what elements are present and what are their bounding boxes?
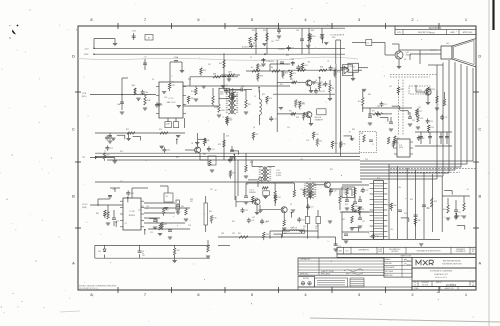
svg-text:P3/J3: P3/J3 — [417, 90, 421, 92]
svg-text:100: 100 — [426, 208, 429, 210]
svg-text:10: 10 — [146, 208, 148, 210]
svg-text:C27: C27 — [365, 190, 368, 192]
svg-text:C38: C38 — [360, 191, 363, 193]
svg-text:SEL FOR: SEL FOR — [315, 117, 322, 119]
svg-text:C6: C6 — [142, 251, 144, 253]
svg-text:R22: R22 — [218, 144, 221, 146]
svg-text:+15: +15 — [466, 189, 469, 191]
svg-text:C23: C23 — [146, 206, 149, 208]
svg-text:R64: R64 — [334, 143, 337, 145]
svg-text:R53: R53 — [305, 65, 308, 67]
svg-text:LS1: LS1 — [446, 43, 449, 45]
svg-text:25V: 25V — [142, 255, 145, 257]
svg-text:D: D — [478, 54, 481, 59]
svg-text:CODE: CODE — [378, 249, 382, 251]
svg-text:L1: L1 — [254, 96, 256, 98]
svg-text:47: 47 — [315, 228, 317, 230]
svg-text:T1: T1 — [222, 117, 224, 119]
svg-text:.01: .01 — [176, 211, 178, 213]
svg-text:R19: R19 — [316, 134, 319, 136]
svg-text:D: D — [72, 54, 75, 59]
svg-text:R47: R47 — [166, 210, 169, 212]
svg-text:R33: R33 — [352, 129, 355, 131]
svg-text:R46: R46 — [393, 205, 396, 207]
svg-text:R33: R33 — [431, 127, 434, 129]
svg-text:R13: R13 — [159, 129, 162, 131]
svg-text:R13: R13 — [255, 198, 258, 200]
svg-text:R44: R44 — [181, 206, 184, 208]
svg-text:R31: R31 — [248, 104, 251, 106]
svg-text:C11: C11 — [274, 119, 277, 121]
svg-text:R11: R11 — [293, 73, 296, 75]
svg-text:E (WH): E (WH) — [276, 175, 281, 177]
svg-text:Q10: Q10 — [406, 52, 409, 54]
svg-text:78M15: 78M15 — [349, 66, 354, 68]
svg-text:R61: R61 — [238, 233, 241, 235]
svg-text:R37: R37 — [330, 169, 333, 171]
svg-text:R63: R63 — [312, 36, 315, 38]
svg-text:C52: C52 — [302, 219, 305, 221]
svg-text:R43: R43 — [190, 199, 193, 201]
svg-text:Q11: Q11 — [433, 89, 436, 91]
svg-text:R50: R50 — [400, 89, 403, 91]
svg-text:C: C — [72, 127, 75, 132]
svg-text:L 1/2 S: L 1/2 S — [249, 190, 254, 192]
svg-text:R43: R43 — [312, 193, 315, 195]
svg-text:R20: R20 — [203, 154, 206, 156]
svg-text:C24: C24 — [211, 149, 214, 151]
svg-text:MIL SPEC: MIL SPEC — [391, 251, 399, 253]
svg-text:J2 IN: J2 IN — [82, 93, 87, 95]
svg-text:DESCRIPTION: DESCRIPTION — [418, 32, 431, 34]
svg-text:C25: C25 — [150, 232, 153, 234]
svg-text:R62 2.2K: R62 2.2K — [290, 228, 298, 230]
svg-text:R55: R55 — [410, 199, 413, 201]
svg-text:R50: R50 — [355, 206, 358, 208]
svg-text:SYM: SYM — [397, 32, 401, 34]
svg-text:R16: R16 — [235, 96, 238, 98]
svg-text:QTY: QTY — [346, 251, 349, 253]
svg-text:FLANGER CKT: FLANGER CKT — [434, 273, 449, 276]
svg-text:NOTES: UNLESS OTHERWISE SPECIF: NOTES: UNLESS OTHERWISE SPECIFIED — [79, 286, 117, 288]
svg-text:C41: C41 — [362, 221, 365, 223]
svg-text:R52: R52 — [342, 219, 345, 221]
svg-text:C44: C44 — [167, 150, 170, 152]
svg-text:IDENT: IDENT — [378, 251, 382, 253]
svg-text:+C3B: +C3B — [290, 59, 294, 61]
svg-text:C45: C45 — [251, 220, 254, 222]
svg-text:C27: C27 — [210, 189, 213, 191]
svg-text:C: C — [478, 127, 481, 132]
svg-text:+15: +15 — [112, 189, 115, 191]
svg-text:4. WDG: 4. WDG — [276, 173, 282, 175]
svg-text:C48: C48 — [131, 193, 134, 195]
svg-text:R12: R12 — [126, 129, 129, 131]
svg-text:R19: R19 — [177, 250, 180, 252]
svg-text:REVISIONS: REVISIONS — [429, 28, 442, 30]
svg-text:C21: C21 — [120, 181, 123, 183]
svg-text:C50: C50 — [390, 229, 393, 231]
svg-text:A: A — [478, 261, 481, 266]
svg-text:+15: +15 — [367, 43, 370, 45]
svg-text:A1: A1 — [148, 36, 150, 39]
svg-text:R70: R70 — [358, 101, 361, 103]
svg-text:CR1: CR1 — [98, 251, 101, 253]
svg-text:C34: C34 — [296, 30, 299, 32]
svg-text:R62: R62 — [290, 79, 293, 81]
svg-text:C22: C22 — [245, 210, 248, 212]
svg-text:WINDING: WINDING — [249, 192, 256, 194]
svg-text:CHECKED: CHECKED — [385, 263, 392, 265]
svg-text:R17: R17 — [176, 157, 179, 159]
svg-text:R32: R32 — [302, 103, 305, 105]
svg-text:M-Series (117): M-Series (117) — [435, 277, 447, 279]
svg-text:R22: R22 — [260, 66, 263, 68]
svg-text:C31: C31 — [315, 226, 318, 228]
svg-text:R47: R47 — [232, 221, 235, 223]
svg-text:R67: R67 — [430, 89, 433, 91]
svg-text:R73: R73 — [421, 118, 424, 120]
svg-text:Q3: Q3 — [318, 77, 320, 79]
svg-text:C40: C40 — [318, 91, 321, 93]
svg-text:+15V: +15V — [84, 48, 89, 50]
svg-text:C39: C39 — [233, 160, 236, 162]
svg-text:R51: R51 — [229, 118, 232, 120]
svg-text:R31: R31 — [172, 85, 175, 87]
svg-text:R50: R50 — [209, 211, 212, 213]
svg-text:C57: C57 — [311, 206, 314, 208]
svg-text:J3 LFO: J3 LFO — [82, 204, 88, 206]
svg-text:R10: R10 — [188, 79, 191, 81]
svg-text:R10: R10 — [269, 98, 272, 100]
svg-text:C26: C26 — [430, 121, 433, 123]
svg-text:C13: C13 — [110, 148, 113, 150]
svg-text:R57: R57 — [107, 212, 110, 214]
svg-text:R48: R48 — [266, 221, 269, 223]
svg-text:R51: R51 — [252, 39, 255, 41]
svg-text:C47: C47 — [458, 212, 461, 214]
svg-text:C 3300/16V: C 3300/16V — [266, 61, 274, 63]
svg-text:R14: R14 — [319, 141, 322, 143]
svg-text:C29: C29 — [252, 217, 255, 219]
svg-text:R63: R63 — [289, 110, 292, 112]
svg-text:R26: R26 — [296, 117, 299, 119]
svg-text:C40: C40 — [398, 187, 401, 189]
svg-text:PWR: PWR — [84, 54, 89, 56]
svg-text:C26: C26 — [188, 225, 191, 227]
svg-text:4013: 4013 — [399, 147, 403, 149]
svg-text:R52: R52 — [164, 224, 167, 226]
svg-text:4558: 4558 — [220, 93, 224, 95]
svg-text:SPKR: SPKR — [430, 33, 435, 35]
svg-text:R65: R65 — [263, 30, 266, 32]
svg-text:C28: C28 — [300, 189, 303, 191]
svg-text:R58: R58 — [434, 201, 437, 203]
svg-text:C23: C23 — [291, 48, 294, 50]
svg-text:APPROVED: APPROVED — [463, 31, 473, 34]
svg-text:CR6: CR6 — [221, 233, 224, 235]
svg-text:+15V: +15V — [131, 31, 136, 33]
svg-text:.01: .01 — [327, 60, 329, 62]
svg-text:R37: R37 — [419, 111, 422, 113]
svg-text:R14: R14 — [278, 197, 281, 199]
svg-text:SYMMETRY: SYMMETRY — [315, 119, 323, 121]
svg-text:T2: T2 — [309, 179, 311, 181]
svg-text:Q4: Q4 — [253, 127, 255, 129]
svg-text:+15: +15 — [143, 57, 146, 59]
svg-text:R36: R36 — [207, 140, 210, 142]
svg-text:REFERENCE: REFERENCE — [456, 249, 465, 251]
svg-text:R28: R28 — [250, 162, 253, 164]
svg-text:R23: R23 — [286, 55, 289, 57]
svg-text:C15: C15 — [333, 190, 336, 192]
svg-text:C38: C38 — [376, 236, 379, 238]
svg-text:.0047: .0047 — [275, 40, 279, 42]
svg-text:L2A1: L2A1 — [131, 84, 135, 87]
svg-text:SHEET 1 OF 1: SHEET 1 OF 1 — [445, 288, 454, 290]
svg-text:100: 100 — [171, 81, 174, 83]
svg-text:ROCHESTER, NEW YORK: ROCHESTER, NEW YORK — [442, 264, 462, 266]
svg-text:R10: R10 — [214, 217, 217, 219]
svg-text:R5: R5 — [251, 67, 253, 69]
svg-text:C15: C15 — [287, 127, 290, 129]
svg-text:R23: R23 — [203, 70, 206, 72]
svg-text:Q6: Q6 — [262, 187, 264, 189]
svg-text:R68: R68 — [260, 75, 263, 77]
svg-text:SAD 512 D: SAD 512 D — [167, 101, 177, 104]
svg-text:C19: C19 — [229, 91, 232, 93]
svg-text:R28: R28 — [306, 191, 309, 193]
svg-text:C48: C48 — [145, 92, 148, 94]
svg-text:R19: R19 — [106, 155, 109, 157]
svg-text:R60: R60 — [343, 144, 346, 146]
svg-text:B: B — [478, 194, 481, 199]
svg-text:C13: C13 — [160, 147, 163, 149]
svg-text:PROJ ENGR: PROJ ENGR — [385, 271, 393, 273]
svg-text:R15: R15 — [120, 151, 123, 153]
svg-text:R34: R34 — [266, 234, 269, 236]
svg-text:C45: C45 — [328, 84, 331, 86]
svg-text:(BLU): (BLU) — [82, 96, 87, 98]
svg-text:R24: R24 — [262, 94, 265, 96]
svg-text:R34: R34 — [368, 94, 371, 96]
svg-text:C17: C17 — [384, 104, 387, 106]
svg-text:10: 10 — [142, 253, 144, 255]
svg-text:C11: C11 — [445, 117, 448, 119]
svg-text:R59: R59 — [443, 209, 446, 211]
svg-text:R30: R30 — [361, 209, 364, 211]
svg-text:R8: R8 — [332, 88, 334, 90]
svg-text:C30: C30 — [303, 226, 306, 228]
svg-text:R7: R7 — [300, 67, 302, 69]
svg-text:MN3101: MN3101 — [129, 215, 135, 217]
svg-text:A: A — [72, 261, 75, 266]
svg-text:R6: R6 — [271, 67, 273, 69]
svg-text:R40: R40 — [306, 114, 309, 116]
svg-text:C15: C15 — [459, 216, 462, 218]
svg-text:R38: R38 — [417, 220, 420, 222]
svg-text:+15 VDC: +15 VDC — [278, 49, 285, 51]
svg-text:C12: C12 — [230, 104, 233, 106]
svg-text:R66: R66 — [311, 30, 314, 32]
svg-text:C8: C8 — [152, 79, 154, 81]
svg-text:R35: R35 — [340, 144, 343, 146]
svg-text:REF DES: REF DES — [303, 278, 309, 280]
svg-text:C22: C22 — [380, 114, 383, 116]
svg-text:47: 47 — [303, 228, 305, 230]
svg-text:IC9: IC9 — [166, 196, 169, 198]
svg-text:R39: R39 — [96, 213, 99, 215]
svg-text:(GRN): (GRN) — [82, 207, 87, 209]
svg-text:C52: C52 — [412, 120, 415, 122]
svg-text:R25: R25 — [280, 84, 283, 86]
svg-text:C35: C35 — [418, 107, 421, 109]
svg-text:C34: C34 — [254, 45, 257, 47]
svg-text:R58: R58 — [190, 98, 193, 100]
svg-text:.01: .01 — [124, 223, 126, 225]
svg-text:R37: R37 — [255, 134, 258, 136]
svg-text:DWG NO.: DWG NO. — [436, 282, 442, 284]
svg-text:TP1: TP1 — [82, 157, 85, 159]
svg-text:R64: R64 — [252, 30, 255, 32]
svg-text:CODE IDENT: CODE IDENT — [421, 282, 429, 284]
svg-text:SCHEMATIC DIAGRAM: SCHEMATIC DIAGRAM — [430, 269, 453, 272]
svg-text:R54: R54 — [345, 204, 348, 206]
svg-text:L 7/8: L 7/8 — [276, 170, 280, 172]
svg-text:C16: C16 — [300, 159, 303, 161]
svg-text:CR7: CR7 — [232, 233, 235, 235]
svg-text:IC 7B: IC 7B — [130, 211, 135, 213]
svg-text:B: B — [72, 194, 75, 199]
svg-text:R72: R72 — [372, 111, 375, 113]
svg-text:C9: C9 — [250, 57, 252, 59]
svg-text:C11: C11 — [225, 85, 228, 87]
svg-text:R15: R15 — [337, 72, 340, 74]
svg-text:R6B: R6B — [320, 67, 323, 69]
svg-text:R30: R30 — [219, 63, 222, 65]
svg-text:C48: C48 — [421, 138, 424, 140]
svg-text:R14: R14 — [285, 72, 288, 74]
svg-text:C14: C14 — [322, 91, 325, 93]
svg-text:C19: C19 — [365, 159, 368, 161]
svg-text:Q8: Q8 — [404, 59, 406, 61]
svg-text:Q7: Q7 — [290, 204, 292, 206]
svg-text:IC 5: IC 5 — [377, 178, 380, 180]
svg-text:C38: C38 — [333, 68, 336, 70]
svg-text:R65: R65 — [397, 138, 400, 140]
svg-text:R25: R25 — [396, 142, 399, 144]
svg-text:C44: C44 — [404, 213, 407, 215]
